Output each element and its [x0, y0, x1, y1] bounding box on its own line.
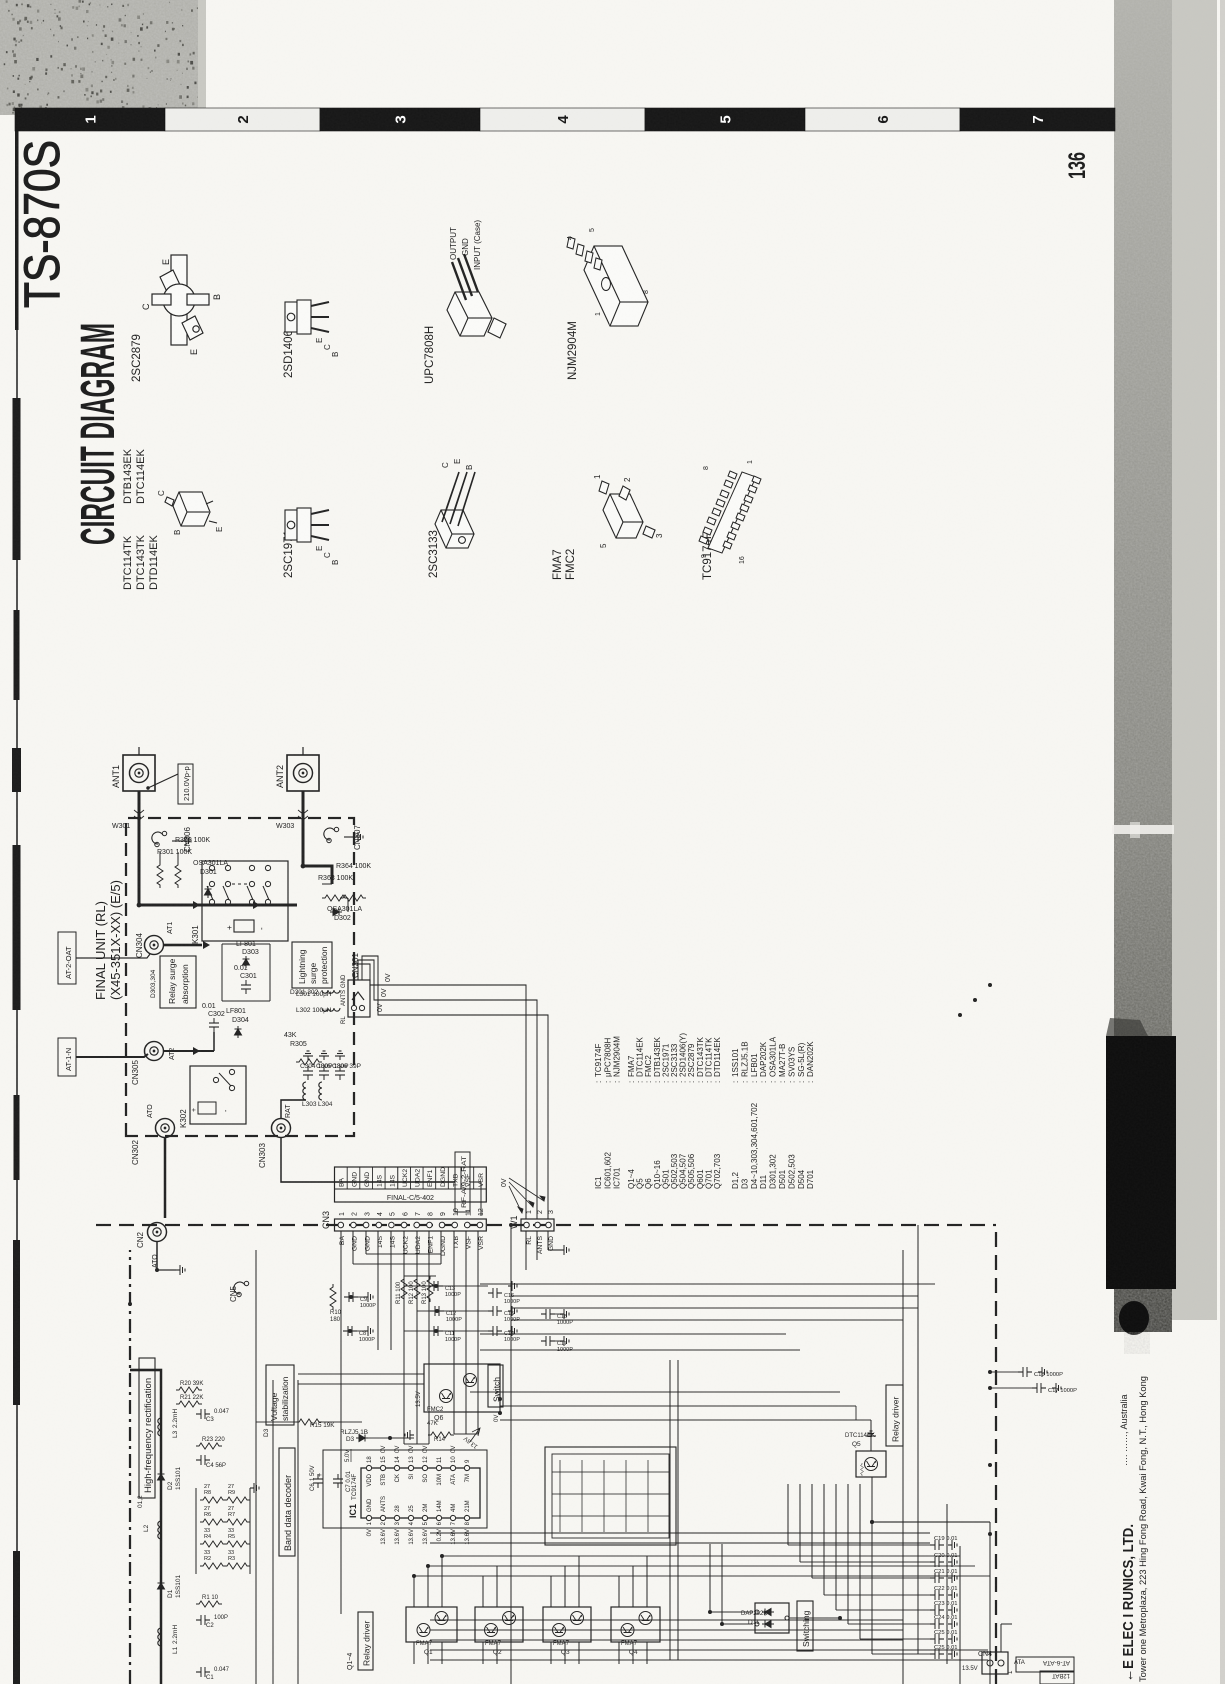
relay K301 box [202, 861, 288, 941]
capacitor C15 1000P [488, 1306, 502, 1316]
label box Relay driver [358, 1612, 373, 1670]
inductor L1 2.2mH [158, 1628, 161, 1646]
wire Q4 leads [618, 1576, 620, 1607]
wire CN302 to CN2 [164, 1138, 167, 1218]
connector CN2 [148, 1223, 167, 1242]
connector CN303 [272, 1119, 291, 1138]
switch matrix box Q10-16 [545, 1447, 676, 1545]
capacitor C304 100P [303, 1066, 313, 1080]
resistor R1 10 [196, 1601, 222, 1607]
resistor R23 220 [196, 1443, 222, 1449]
black ink blob [1119, 1301, 1149, 1335]
package drawing UPC7808H body with leads [447, 254, 506, 338]
capacitor C1 0.047 [196, 1667, 210, 1677]
wire capacitor bank links [404, 1285, 430, 1287]
relay K301 coil [234, 920, 254, 932]
inductor L2 [158, 1521, 161, 1539]
ground marks L/C filter [303, 1051, 313, 1060]
wire W1 pin stubs [525, 1231, 527, 1270]
wire relay driver bus columns [414, 1575, 990, 1577]
diode D302 OSA301LA [330, 909, 342, 916]
resistor R15 19K [296, 1419, 322, 1425]
capacitor C17 1000P outer [1032, 1383, 1046, 1393]
resistor R363 100K [322, 895, 348, 901]
capacitor C9 1000P [344, 1292, 358, 1302]
unit boundary dashed horizontal (bottom of lower unit) [995, 1225, 997, 1684]
package drawing 2SC1971 body TO-220 [285, 508, 329, 542]
wire 0V run RL [354, 964, 526, 1219]
page edge black segments along portrait left edge (landscape top) [15, 115, 19, 330]
capacitor C306 39P [335, 1066, 345, 1080]
wire Q1 leads [413, 1576, 415, 1607]
diode D301 OSA301LA [205, 886, 212, 898]
connector CN4 box [982, 1652, 1008, 1674]
wire R15 link [256, 1421, 296, 1423]
scan noise blob top-right corner [0, 0, 206, 115]
IC1 right-side pin numbers and names [366, 1465, 371, 1470]
connector CN306 hook [152, 831, 167, 846]
connector CN305 [145, 1042, 164, 1061]
label box Lightning surge protection [292, 942, 332, 988]
wire Q3 leads [550, 1576, 552, 1607]
relay K302 box [190, 1066, 246, 1124]
label box Band data decoder [279, 1448, 295, 1556]
inductor L302 100uH [322, 990, 340, 993]
capacitor C305 180P [319, 1066, 329, 1080]
resistor R10 180 [330, 1284, 336, 1310]
package drawing 2SC3133 body with leads [435, 472, 475, 548]
wire ANT2 main feed [303, 828, 332, 884]
wire ANT1 main feed [139, 828, 297, 905]
capacitor C8 1000P [343, 1326, 357, 1336]
diode D303 [243, 956, 250, 968]
FINAL UNIT dashed box [126, 818, 354, 1136]
wire CN303 down [281, 1138, 455, 1182]
IC1 decoder sub-box [323, 1450, 487, 1528]
wire CN303 to filter [281, 1100, 306, 1118]
wire outer cap links [990, 1387, 1032, 1389]
wire surge loop [222, 944, 270, 1001]
connector CN3 signal table [335, 1167, 487, 1202]
wire CN307 stub [344, 836, 354, 838]
resistor R14 47K [428, 1432, 454, 1438]
transistor Q5 DTC114EK [856, 1451, 886, 1477]
inductor L304 [319, 1082, 322, 1100]
wire HF rails [255, 1250, 257, 1684]
ground marks outer C17 C18 [1052, 1383, 1061, 1393]
label box 2BAT [1040, 1671, 1074, 1684]
package drawing NJM2904M DIP-8 body [567, 237, 648, 326]
wire 0V run GND [362, 956, 548, 1219]
label box Switch [488, 1365, 503, 1407]
junction dots lower area [128, 983, 992, 1626]
connector ANT2 [275, 747, 319, 791]
capacitor C17 1000P [541, 1336, 555, 1346]
label box Switching [797, 1601, 813, 1651]
wire CN304 feed [164, 944, 202, 947]
resistor R302 100K [175, 862, 181, 888]
diode pair D11 DAP202K [755, 1603, 789, 1633]
connector CN304 [145, 936, 164, 955]
wire CN4 feeds [989, 1534, 991, 1652]
zener D3 RLZJ5.1B [356, 1435, 368, 1442]
capacitor C14 1000P [488, 1326, 502, 1336]
title TS-870S [14, 140, 70, 308]
label box AT-2-OAT [58, 932, 76, 984]
HF main bus wire [130, 1370, 161, 1684]
resistor R364 100K [340, 895, 366, 901]
capacitor C11 1000P [429, 1326, 443, 1336]
connector W1 strip [521, 1219, 554, 1231]
wire W301 from ANT1 [138, 791, 141, 828]
IC1 left-side pin numbers and names [366, 1515, 371, 1520]
wire CN2 stub [156, 1242, 158, 1270]
capacitor C7 0.01 [333, 1474, 343, 1488]
switch matrix internal wires [559, 1460, 561, 1532]
label box RF-A/9-2-RAT [455, 1152, 470, 1212]
capacitor C2 100P [196, 1615, 210, 1625]
capacitor C6 1 50V [313, 1474, 323, 1488]
wire Q5 feed [871, 1477, 873, 1522]
diode D2 1SS101 [158, 1471, 165, 1483]
transistor Q6 FMC2 switch box [424, 1364, 500, 1412]
relay K302 contacts [213, 1069, 234, 1090]
wire CN306 stub [172, 840, 182, 842]
label 210.0Vp-p [178, 764, 193, 804]
label box Relay driver 2 [886, 1385, 903, 1446]
label box High-frequency rectification [139, 1358, 155, 1498]
capacitor C16 1000P [488, 1288, 502, 1298]
connector CN302 [156, 1119, 175, 1138]
connector CN301 box [348, 980, 370, 1017]
transistor array Q3 FMA7 [543, 1607, 591, 1642]
connector CN5 hook [234, 1281, 249, 1296]
ground marks capacitor bank [508, 1281, 517, 1291]
diode D1 1SS101 [158, 1580, 165, 1592]
resistor R13 100 [427, 1276, 433, 1302]
unit boundary dashed vertical (right edge of lower unit) [96, 1224, 996, 1226]
wire supply rail pair [430, 1542, 930, 1544]
resistor R11 100 [401, 1276, 407, 1302]
label box Relay surge absorption [160, 956, 196, 1008]
capacitor C18 1000P outer [1018, 1367, 1032, 1377]
capacitor C3 0.047 [196, 1409, 210, 1419]
inductor L301 100uH [322, 1008, 340, 1011]
relay K301 contacts [207, 865, 271, 904]
package drawing 2SC2879 body [152, 255, 209, 345]
IC U1 TC9174F box [361, 1468, 480, 1518]
wire ANT2 resistor bank links [322, 883, 332, 885]
wire ANT1 tap to 210.0Vp-p [148, 774, 178, 788]
white scratch across gray band [1112, 825, 1174, 834]
transistor array Q4 FMA7 [611, 1607, 660, 1642]
solid black bar segment of right-edge band [1106, 1036, 1176, 1289]
wire 0V run ANTS [358, 960, 537, 1219]
wire R301/R302 link [139, 904, 218, 906]
junction dots antenna feeds [137, 903, 142, 908]
label box Voltage stabilization [266, 1365, 294, 1425]
wire resistor grid rails [195, 1488, 197, 1574]
wire CN3 row extensions [340, 1231, 342, 1614]
wire D11 stubs [722, 1623, 753, 1625]
wire W303 from ANT2 [302, 791, 305, 828]
relay K302 coil [198, 1102, 216, 1114]
capacitor row C19-C25 0.01 [930, 1540, 944, 1550]
resistor R305 43K [296, 1059, 322, 1065]
halftone gray band along portrait right edge (landscape bottom strip) [1114, 0, 1172, 1332]
wire Q2 leads [482, 1576, 484, 1607]
resistor R12 100 [414, 1276, 420, 1302]
arrowheads on feeds [193, 901, 200, 909]
package drawing TC9174F DIP-16 body [699, 471, 761, 553]
resistor grid R2-R9 [200, 1563, 226, 1569]
connector ANT1 [111, 747, 155, 791]
resistor R301 100K [157, 862, 163, 888]
capacitor C12 1000P [430, 1306, 444, 1316]
capacitor C302 0.01 [209, 1018, 219, 1032]
wire vertical links lower area [353, 1263, 441, 1265]
capacitor C301 0.01 [241, 980, 251, 994]
unit boundary dash-dot top of HF rectifier [129, 1250, 131, 1684]
label box AT-6-ATA [1016, 1657, 1074, 1672]
capacitor C13 1000P [429, 1281, 443, 1291]
package drawing 2SD1406 body TO-220 [285, 300, 329, 334]
capacitor C4 56P [196, 1455, 210, 1465]
label box AT-1-N [58, 1038, 76, 1076]
resistor R20 39K [176, 1387, 202, 1393]
page edge thin rule along portrait left edge [16, 115, 18, 1684]
wire long rails lower area [510, 1225, 512, 1684]
capacitor C18 1000P [541, 1309, 555, 1319]
wire CN305 feed [76, 1051, 214, 1057]
transistor array Q2 FMA7 [475, 1607, 523, 1642]
film ruler bar with frame numbers (portrait top bar) [15, 108, 165, 131]
package drawing FMA7 body [599, 481, 655, 538]
inductor L303 [303, 1082, 306, 1100]
package drawing SOT body DTB/DTC/DTD [165, 492, 217, 526]
connector CN3 strip [335, 1219, 487, 1231]
connector CN307 hook [324, 827, 339, 842]
inductor L3 2.2mH [158, 1418, 161, 1436]
transistor array Q1 FMA7 [406, 1607, 457, 1642]
diode D304 LF801 [235, 1026, 242, 1038]
resistor R21 22K [176, 1401, 202, 1407]
